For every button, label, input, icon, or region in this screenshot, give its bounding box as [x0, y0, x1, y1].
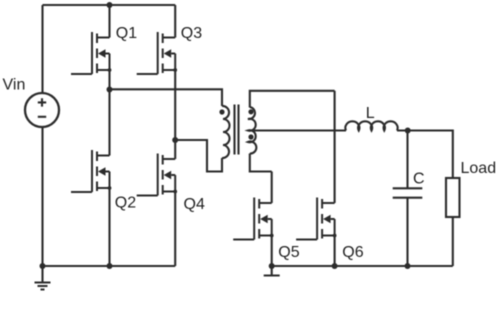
transistor Q5 [233, 198, 273, 240]
svg-text:C: C [413, 171, 425, 188]
svg-text:Q6: Q6 [342, 244, 363, 261]
wire node A to primary top [110, 89, 223, 106]
svg-text:Load: Load [461, 160, 496, 177]
transistor Q2 [71, 150, 111, 192]
wire Q1 drain [108, 5, 110, 38]
junction dot top rail / Q1 drain [107, 2, 113, 8]
resistor Load [446, 178, 460, 217]
junction dot Q2 source [107, 263, 113, 269]
transformer T1 secondary phase dot bottom [248, 134, 253, 139]
wire Q5 source [271, 236, 273, 267]
junction dot Q5 source [269, 263, 275, 269]
wire right bottom rail [272, 265, 453, 267]
wire Vin bottom lead [41, 127, 43, 266]
svg-text:Q2: Q2 [115, 195, 136, 212]
transformer T1 primary phase dot [219, 109, 224, 114]
Vin minus sign [38, 116, 46, 118]
Vin plus sign [38, 98, 46, 106]
wire Q6 source [334, 236, 336, 267]
wire Q3 source to node B [174, 70, 176, 140]
wire Q4 source to bottom rail [174, 192, 176, 267]
node B junction dot [172, 137, 178, 143]
wire top rail [43, 4, 176, 6]
svg-text:Q3: Q3 [181, 25, 202, 42]
voltage source Vin [25, 93, 59, 127]
junction dot C bottom [405, 263, 411, 269]
wire secondary bottom to Q5 drain [250, 154, 272, 172]
wire Q5 drain [271, 172, 273, 204]
ground output side [264, 266, 280, 276]
capacitor C top lead [406, 131, 408, 189]
transformer T1 secondary phase dot top [248, 109, 253, 114]
junction dot Vin bottom [40, 263, 46, 269]
junction dot output node [405, 128, 411, 134]
capacitor C plates [393, 188, 423, 197]
svg-text:Q5: Q5 [278, 244, 299, 261]
transistor Q1 [71, 32, 111, 74]
inductor L [345, 121, 397, 130]
svg-text:Vin: Vin [3, 77, 26, 94]
wire left bottom rail [43, 265, 176, 267]
wire Q2 source to bottom rail [108, 188, 110, 266]
wire L to load top [397, 131, 453, 179]
svg-text:Q4: Q4 [184, 196, 205, 213]
wire secondary top to Q6 drain [250, 91, 335, 108]
wire Q4 drain from node B [174, 140, 176, 159]
svg-text:L: L [366, 105, 375, 122]
wire Q2 drain from node A [108, 89, 110, 155]
wire Q1 source to node A [108, 70, 110, 89]
node A junction dot [107, 87, 113, 93]
wire node B to primary bottom [175, 140, 222, 172]
transistor Q6 [296, 198, 336, 240]
junction dot Q6 source [332, 263, 338, 269]
wire Q6 drain [334, 91, 336, 203]
wire Q3 drain [174, 5, 176, 38]
transistor Q3 [137, 32, 177, 74]
transistor Q4 [137, 154, 177, 196]
transformer T1 secondary winding [248, 107, 256, 154]
svg-text:Q1: Q1 [116, 25, 137, 42]
transformer T1 core [235, 105, 239, 155]
wire Vin top lead [41, 5, 43, 93]
transformer T1 primary winding [222, 106, 230, 158]
wire load bottom lead [452, 217, 454, 266]
ground input side [35, 266, 51, 290]
wire secondary center tap [248, 129, 346, 131]
capacitor C bottom lead [406, 198, 408, 266]
